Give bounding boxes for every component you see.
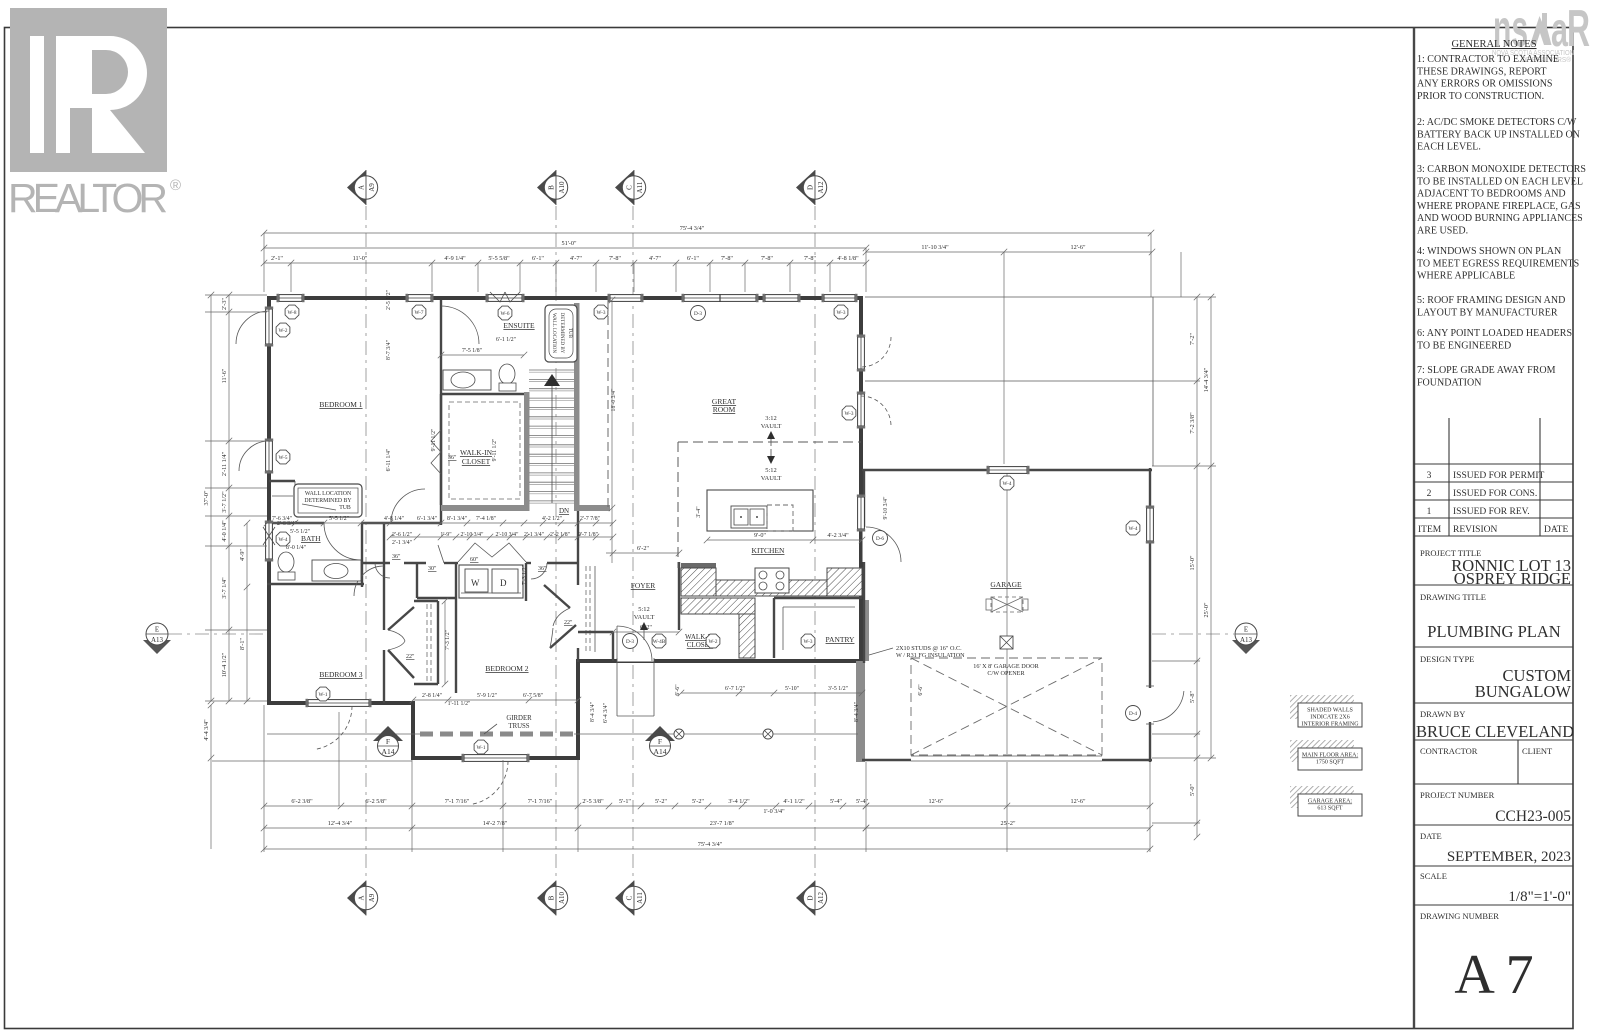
svg-text:5:12: 5:12 xyxy=(765,467,777,474)
exterior wall top - main house xyxy=(267,296,863,300)
svg-text:GARAGE: GARAGE xyxy=(990,580,1022,589)
window tag W-6 xyxy=(498,306,512,320)
garage man door D-4 xyxy=(1148,688,1153,722)
walk-in closet shelving dashed xyxy=(449,402,520,499)
garage door X brace dashed xyxy=(911,658,1102,755)
svg-text:1: CONTRACTOR TO EXAMINE: 1: CONTRACTOR TO EXAMINE xyxy=(1417,54,1559,65)
left lower dimension line xyxy=(246,523,248,701)
kitchen counter hatched left block xyxy=(681,568,716,596)
garage wall bottom right segment xyxy=(1102,759,1152,761)
bottom dim segments row xyxy=(264,805,866,807)
svg-text:7'-4 1/8": 7'-4 1/8" xyxy=(476,516,496,522)
svg-text:D-3: D-3 xyxy=(694,311,702,317)
svg-text:D: D xyxy=(807,185,815,190)
walk-in closet bottom wall shaded xyxy=(441,505,529,511)
bath vanity xyxy=(312,560,361,581)
window tag W-3 a xyxy=(594,305,608,319)
svg-text:10'-4 1/2": 10'-4 1/2" xyxy=(221,652,228,677)
svg-text:9'-11 1/2": 9'-11 1/2" xyxy=(431,429,437,452)
window left wall lower xyxy=(266,441,273,471)
svg-text:A13: A13 xyxy=(1240,636,1253,644)
svg-text:12'-6": 12'-6" xyxy=(929,798,944,805)
svg-text:6'-2": 6'-2" xyxy=(640,624,652,631)
bedroom3 closet rod dashed xyxy=(426,604,428,681)
svg-text:6'-1 3/4": 6'-1 3/4" xyxy=(417,516,437,522)
ensuite bottom wall xyxy=(441,393,527,395)
svg-text:D-4: D-4 xyxy=(1129,711,1137,717)
bedroom1 right wall xyxy=(440,300,442,344)
svg-text:WALL LOCATION: WALL LOCATION xyxy=(305,491,352,497)
svg-text:ADJACENT TO BEDROOMS AND: ADJACENT TO BEDROOMS AND xyxy=(1417,189,1566,200)
svg-text:WHERE PROPANE FIREPLACE, GAS: WHERE PROPANE FIREPLACE, GAS xyxy=(1417,201,1581,212)
svg-text:51'-0": 51'-0" xyxy=(562,240,577,247)
svg-text:W-3: W-3 xyxy=(804,639,813,645)
svg-text:2: AC/DC SMOKE DETECTORS C/W: 2: AC/DC SMOKE DETECTORS C/W xyxy=(1417,117,1577,128)
garage side door arc upper xyxy=(1149,497,1151,552)
hall wall xyxy=(362,562,390,564)
svg-text:9'-0": 9'-0" xyxy=(754,532,766,539)
svg-text:TO BE INSTALLED ON EACH LEVEL: TO BE INSTALLED ON EACH LEVEL xyxy=(1417,176,1583,187)
svg-text:4'-1 1/2": 4'-1 1/2" xyxy=(783,798,805,805)
svg-text:6'-7 5/8": 6'-7 5/8" xyxy=(523,693,543,699)
svg-text:4'-7": 4'-7" xyxy=(649,255,661,262)
svg-text:BATTERY BACK UP INSTALLED ON: BATTERY BACK UP INSTALLED ON xyxy=(1417,129,1580,140)
svg-text:CCH23-005: CCH23-005 xyxy=(1495,808,1571,825)
svg-text:5'-5 1/2": 5'-5 1/2" xyxy=(290,529,310,535)
nsar association watermark logo xyxy=(1492,0,1590,64)
svg-text:7: SLOPE GRADE AWAY FROM: 7: SLOPE GRADE AWAY FROM xyxy=(1417,365,1556,376)
bedroom2 left wall xyxy=(455,601,457,693)
svg-text:25'-0": 25'-0" xyxy=(1203,602,1210,617)
svg-text:36": 36" xyxy=(392,554,401,560)
svg-text:BUNGALOW: BUNGALOW xyxy=(1475,682,1572,701)
exterior wall bedroom2 bay right xyxy=(576,659,580,760)
svg-text:LAYOUT BY MANUFACTURER: LAYOUT BY MANUFACTURER xyxy=(1417,307,1558,318)
vault break dashed line xyxy=(678,441,861,443)
svg-text:DATE: DATE xyxy=(1420,831,1442,841)
svg-text:SCALE: SCALE xyxy=(1420,871,1447,881)
section marker C bottom xyxy=(615,881,634,916)
svg-text:5'-5 1/2": 5'-5 1/2" xyxy=(329,516,349,522)
svg-text:A11: A11 xyxy=(636,181,644,193)
svg-text:ISSUED FOR PERMIT: ISSUED FOR PERMIT xyxy=(1453,471,1545,481)
garage wall left upper xyxy=(863,470,865,663)
right extension lines xyxy=(1153,296,1216,298)
hall door arc 36 xyxy=(375,563,390,578)
section line D xyxy=(814,206,816,880)
svg-text:22": 22" xyxy=(564,620,573,626)
svg-text:4'-9 1/4": 4'-9 1/4" xyxy=(444,255,466,262)
garage door opener symbol xyxy=(991,597,1023,612)
svg-text:C: C xyxy=(626,185,634,190)
bedroom2 left inner dim xyxy=(444,601,446,684)
svg-text:VAULT: VAULT xyxy=(761,423,782,430)
svg-text:2'-1": 2'-1" xyxy=(271,255,283,262)
svg-text:D: D xyxy=(500,578,507,588)
svg-text:6'-6": 6'-6" xyxy=(918,684,924,695)
svg-text:25'-2": 25'-2" xyxy=(1001,820,1016,827)
svg-text:5:12: 5:12 xyxy=(638,606,650,613)
svg-text:6'-2": 6'-2" xyxy=(637,545,649,552)
svg-text:4'-4 3/4": 4'-4 3/4" xyxy=(203,719,210,741)
svg-text:WHERE APPLICABLE: WHERE APPLICABLE xyxy=(1417,271,1515,282)
left bottom vertical dim xyxy=(210,705,212,849)
bath door arc xyxy=(324,523,361,560)
svg-text:DETERMINED BY: DETERMINED BY xyxy=(304,498,352,504)
svg-text:W-4: W-4 xyxy=(279,537,288,543)
svg-text:B: B xyxy=(548,895,556,900)
hall closet door leaf xyxy=(438,545,444,563)
svg-text:7'-3 1/2": 7'-3 1/2" xyxy=(445,630,451,650)
svg-text:REALTOR: REALTOR xyxy=(8,175,168,221)
svg-text:TO BE ENGINEERED: TO BE ENGINEERED xyxy=(1417,340,1511,351)
svg-text:4'-8 1/8": 4'-8 1/8" xyxy=(837,255,859,262)
svg-text:DRAWING NUMBER: DRAWING NUMBER xyxy=(1420,911,1499,921)
REALTOR watermark logo xyxy=(8,8,181,221)
tub at stair top xyxy=(545,305,577,362)
svg-text:ARE USED.: ARE USED. xyxy=(1417,226,1468,237)
deck door arcs dashed xyxy=(861,337,891,367)
bedroom3 right wall xyxy=(383,523,385,630)
svg-text:1: 1 xyxy=(1427,507,1432,517)
svg-text:W-4: W-4 xyxy=(1003,481,1012,487)
right dimension line inner xyxy=(1196,297,1198,837)
foyer closet hatched walls xyxy=(681,598,755,614)
svg-text:6'-1 1/2": 6'-1 1/2" xyxy=(496,337,516,343)
svg-text:W-5: W-5 xyxy=(279,455,288,461)
svg-text:15'-0": 15'-0" xyxy=(1189,555,1196,570)
window W-3 top wall right xyxy=(824,295,855,302)
kitchen counter hatched band xyxy=(716,580,862,596)
svg-text:TUB: TUB xyxy=(339,505,351,511)
svg-text:C/W OPENER: C/W OPENER xyxy=(987,670,1025,677)
svg-text:1/8"=1'-0": 1/8"=1'-0" xyxy=(1508,889,1571,905)
svg-text:GENERAL NOTES: GENERAL NOTES xyxy=(1451,39,1536,50)
svg-text:4'-8 1/4": 4'-8 1/4" xyxy=(384,516,404,522)
kitchen stove xyxy=(755,568,789,593)
garage bottom dim row 2 xyxy=(866,827,1150,829)
ensuite door arc xyxy=(441,306,479,344)
exterior wall step bedroom2 left xyxy=(411,703,415,760)
svg-text:6'-11 1/4": 6'-11 1/4" xyxy=(386,449,392,472)
svg-text:A14: A14 xyxy=(382,747,395,756)
svg-text:A10: A10 xyxy=(558,891,566,904)
svg-text:2'-1 3/4": 2'-1 3/4" xyxy=(392,540,412,546)
svg-text:613 SQFT: 613 SQFT xyxy=(1317,806,1343,812)
svg-text:8'-1 3/4": 8'-1 3/4" xyxy=(447,516,467,522)
stair treads xyxy=(529,369,574,371)
island dishwasher dashed xyxy=(767,505,793,531)
svg-text:6: ANY POINT LOADED HEADERS: 6: ANY POINT LOADED HEADERS xyxy=(1417,328,1572,339)
svg-text:8'-4 3/4": 8'-4 3/4" xyxy=(854,702,860,722)
laundry bifold doors xyxy=(458,543,526,562)
svg-text:1'-0 3/4": 1'-0 3/4" xyxy=(763,808,785,815)
stair wall right shaded xyxy=(574,303,580,508)
svg-text:E: E xyxy=(155,626,159,634)
svg-text:F: F xyxy=(386,737,390,746)
door tag D-3 xyxy=(691,306,706,321)
section marker D top xyxy=(796,170,815,205)
window tag W-3 pantry xyxy=(801,634,815,648)
window W-3 top wall mid xyxy=(765,295,798,302)
svg-text:D: D xyxy=(807,895,815,900)
svg-text:D-6: D-6 xyxy=(876,536,884,542)
section marker E right xyxy=(1232,640,1260,654)
bedroom2 egress arc dashed xyxy=(472,761,508,804)
great room right wall windows xyxy=(858,337,865,369)
svg-text:11'-6": 11'-6" xyxy=(221,368,228,383)
svg-text:GIRDER: GIRDER xyxy=(506,715,532,722)
ensuite toilet xyxy=(499,364,515,384)
stair wall left shaded xyxy=(524,392,530,511)
svg-text:C: C xyxy=(626,895,634,900)
svg-text:7'-2 3/8": 7'-2 3/8" xyxy=(1189,412,1196,434)
svg-text:5: ROOF FRAMING DESIGN AND: 5: ROOF FRAMING DESIGN AND xyxy=(1417,295,1565,306)
svg-text:W-4: W-4 xyxy=(1129,526,1138,532)
legend garage area xyxy=(1290,786,1362,816)
svg-text:W-8: W-8 xyxy=(288,310,297,316)
legend main floor area xyxy=(1290,740,1362,770)
svg-text:5'-4": 5'-4" xyxy=(830,798,842,805)
svg-text:5'-10": 5'-10" xyxy=(785,686,799,692)
svg-text:1750 SQFT: 1750 SQFT xyxy=(1316,760,1345,766)
svg-text:75'-4 3/4": 75'-4 3/4" xyxy=(680,225,705,232)
svg-text:FOYER: FOYER xyxy=(631,581,656,590)
left extension lines xyxy=(205,294,267,296)
left dimension line 37ft xyxy=(210,295,212,701)
svg-text:6'-7 1/2": 6'-7 1/2" xyxy=(725,686,745,692)
svg-text:ENSUITE: ENSUITE xyxy=(503,321,535,330)
svg-text:3'-7 1/4": 3'-7 1/4" xyxy=(221,577,228,599)
garage door opening xyxy=(911,755,1102,757)
section marker C top xyxy=(615,170,634,205)
svg-text:A12: A12 xyxy=(817,891,825,904)
exterior wall left xyxy=(267,296,271,705)
svg-text:VAULT: VAULT xyxy=(761,475,782,482)
svg-text:D-3: D-3 xyxy=(626,639,634,645)
svg-text:7'-6 3/4": 7'-6 3/4" xyxy=(272,516,292,522)
svg-text:9'-11 1/2": 9'-11 1/2" xyxy=(492,439,498,462)
svg-text:BEDROOM 1: BEDROOM 1 xyxy=(319,400,362,409)
ensuite vanity xyxy=(443,370,491,390)
svg-text:PRIOR TO CONSTRUCTION.: PRIOR TO CONSTRUCTION. xyxy=(1417,91,1544,102)
window tag W-2 xyxy=(276,323,290,337)
laundry closet walls xyxy=(416,563,418,598)
svg-text:ANY ERRORS OR OMISSIONS: ANY ERRORS OR OMISSIONS xyxy=(1417,79,1553,90)
svg-text:5'-2": 5'-2" xyxy=(655,798,667,805)
foyer left wall xyxy=(612,632,614,661)
svg-text:5'-1": 5'-1" xyxy=(619,798,631,805)
svg-text:OSPREY RIDGE: OSPREY RIDGE xyxy=(1454,569,1571,588)
bedroom1 door arc xyxy=(391,489,425,523)
bottom extension lines xyxy=(263,705,265,852)
svg-text:11'-10 3/4": 11'-10 3/4" xyxy=(921,244,949,251)
svg-text:W-2: W-2 xyxy=(709,639,718,645)
garage ceiling box symbol xyxy=(1000,636,1013,649)
svg-text:5'-2": 5'-2" xyxy=(692,798,704,805)
girder truss heavy dashed line xyxy=(420,732,574,737)
svg-text:8'-1": 8'-1" xyxy=(239,638,246,650)
svg-text:TRUSS: TRUSS xyxy=(508,723,529,730)
section line C xyxy=(632,206,634,880)
svg-text:2'-8 1/4": 2'-8 1/4" xyxy=(422,693,442,699)
svg-text:7'-8": 7'-8" xyxy=(761,255,773,262)
svg-text:7'-2": 7'-2" xyxy=(1189,333,1196,345)
svg-text:5'-5 5/8": 5'-5 5/8" xyxy=(488,255,510,262)
svg-text:WALL LOCATION: WALL LOCATION xyxy=(551,313,556,353)
svg-text:WALK-IN: WALK-IN xyxy=(460,448,493,457)
bedroom3 door arc xyxy=(354,566,384,596)
garage window right W-4 xyxy=(1147,508,1154,541)
svg-text:REVISION: REVISION xyxy=(1453,525,1497,535)
garage bottom dim row xyxy=(866,805,1150,807)
exterior wall great room right xyxy=(859,296,863,663)
svg-text:2'-5 3/8": 2'-5 3/8" xyxy=(582,798,604,805)
bath toilet xyxy=(278,552,294,572)
svg-text:4: WINDOWS SHOWN ON PLAN: 4: WINDOWS SHOWN ON PLAN xyxy=(1417,246,1561,257)
svg-text:7'-8": 7'-8" xyxy=(721,255,733,262)
svg-text:6'-2 5/8": 6'-2 5/8" xyxy=(365,798,387,805)
svg-text:A: A xyxy=(358,185,366,190)
svg-text:DRAWN BY: DRAWN BY xyxy=(1420,709,1465,719)
deck outline top right xyxy=(865,297,1153,466)
window W-8 top wall xyxy=(279,295,302,302)
bedroom2 bay window bottom wall xyxy=(464,755,527,762)
svg-text:INDICATE 2X6: INDICATE 2X6 xyxy=(1310,715,1350,721)
title block frame xyxy=(1413,28,1415,1029)
svg-text:BEDROOM 3: BEDROOM 3 xyxy=(319,670,362,679)
section marker B top xyxy=(537,170,556,205)
svg-text:A14: A14 xyxy=(654,747,667,756)
svg-text:7'-3 1/2": 7'-3 1/2" xyxy=(522,565,528,585)
legend shaded walls xyxy=(1290,695,1362,728)
svg-text:2'-11 1/4": 2'-11 1/4" xyxy=(221,451,228,476)
svg-text:4'-0 1/4": 4'-0 1/4" xyxy=(221,520,228,542)
svg-text:12'-4 3/4": 12'-4 3/4" xyxy=(328,820,353,827)
bedroom3 closet walls xyxy=(414,600,438,602)
section marker B bottom xyxy=(537,881,556,916)
section marker A top xyxy=(347,170,366,205)
svg-text:14'-4 3/4": 14'-4 3/4" xyxy=(1203,367,1210,392)
window tag W-8 xyxy=(285,305,299,319)
svg-text:ISSUED FOR CONS.: ISSUED FOR CONS. xyxy=(1453,489,1537,499)
window tag W-4 bath xyxy=(276,532,290,546)
stair bottom wall shaded xyxy=(574,505,610,511)
door tag D-4 garage xyxy=(1126,706,1141,721)
svg-text:8'-7 3/4": 8'-7 3/4" xyxy=(386,340,392,360)
svg-text:ROOM: ROOM xyxy=(713,405,736,414)
svg-text:DESIGN TYPE: DESIGN TYPE xyxy=(1420,654,1474,664)
svg-text:W-3: W-3 xyxy=(597,310,606,316)
svg-text:37'-0": 37'-0" xyxy=(203,490,210,505)
deck mid line xyxy=(865,380,1153,382)
svg-text:7'-1 7/16": 7'-1 7/16" xyxy=(445,798,470,805)
svg-text:B: B xyxy=(548,185,556,190)
svg-text:TUB: TUB xyxy=(567,328,572,339)
bedroom2 right angled closet doors xyxy=(544,585,570,608)
svg-text:11'-0": 11'-0" xyxy=(353,255,368,262)
island sink xyxy=(731,506,767,528)
window tag W-4B foyer xyxy=(652,634,666,648)
svg-text:W-6: W-6 xyxy=(501,311,510,317)
bath window W-4 left wall xyxy=(266,523,273,559)
svg-text:2'-5 1/2": 2'-5 1/2" xyxy=(386,290,392,310)
svg-text:W-1: W-1 xyxy=(477,745,486,751)
girder post symbols xyxy=(674,729,684,739)
top dimension line 75ft xyxy=(264,232,1151,234)
top extension lines xyxy=(290,263,292,292)
svg-text:6'-1": 6'-1" xyxy=(532,255,544,262)
bedroom1 bottom wall xyxy=(267,522,324,524)
bay level extension line left xyxy=(212,760,412,762)
svg-text:14'-2 7/8": 14'-2 7/8" xyxy=(483,820,508,827)
svg-text:E: E xyxy=(1244,626,1248,634)
top dimension line deck xyxy=(866,251,1152,253)
svg-text:60": 60" xyxy=(470,557,479,563)
svg-text:TO MEET EGRESS REQUIREMENTS: TO MEET EGRESS REQUIREMENTS xyxy=(1417,258,1579,269)
window W-7 top wall xyxy=(408,295,431,302)
svg-text:A10: A10 xyxy=(558,181,566,194)
svg-text:6'-1": 6'-1" xyxy=(687,255,699,262)
svg-text:5'-4": 5'-4" xyxy=(856,798,868,805)
window tag W-7 xyxy=(412,305,426,319)
svg-text:KITCHEN: KITCHEN xyxy=(752,546,785,555)
patio door D-3 top wall xyxy=(684,295,756,302)
svg-text:CLIENT: CLIENT xyxy=(1522,746,1553,756)
svg-text:30": 30" xyxy=(428,566,437,572)
svg-text:W-2: W-2 xyxy=(279,328,288,334)
bottom dim row 2 xyxy=(264,827,866,829)
svg-text:W: W xyxy=(471,578,480,588)
svg-text:PLUMBING PLAN: PLUMBING PLAN xyxy=(1427,622,1560,641)
foyer right wall xyxy=(678,562,680,630)
svg-text:ITEM: ITEM xyxy=(1418,525,1442,535)
lower vault note xyxy=(770,449,772,462)
svg-text:A 7: A 7 xyxy=(1454,944,1533,1006)
svg-text:VAULT: VAULT xyxy=(634,614,655,621)
svg-text:5'-9 1/2": 5'-9 1/2" xyxy=(477,693,497,699)
svg-text:22": 22" xyxy=(406,654,415,660)
svg-text:7'-5 1/8": 7'-5 1/8" xyxy=(462,348,482,354)
washer dryer boxes xyxy=(459,565,523,598)
svg-text:PANTRY: PANTRY xyxy=(826,635,855,644)
tub niche wall xyxy=(269,480,295,482)
hall door arc right 36 xyxy=(531,563,547,579)
svg-text:BEDROOM 2: BEDROOM 2 xyxy=(485,664,528,673)
svg-text:MAIN FLOOR AREA:: MAIN FLOOR AREA: xyxy=(1302,753,1359,759)
svg-text:8'-0 1/4": 8'-0 1/4" xyxy=(286,545,306,551)
svg-text:7'-8": 7'-8" xyxy=(609,255,621,262)
bottom dim row 75ft xyxy=(264,848,1150,850)
svg-text:BRUCE CLEVELAND: BRUCE CLEVELAND xyxy=(1416,722,1574,741)
window tag W-3 c xyxy=(842,406,856,420)
svg-text:3: 3 xyxy=(1427,471,1432,481)
garage wall top xyxy=(862,469,1152,471)
door tag D-6 garage entry xyxy=(873,531,888,546)
svg-text:CLOSET: CLOSET xyxy=(462,457,491,466)
svg-text:7'-1 7/16": 7'-1 7/16" xyxy=(528,798,553,805)
section marker F left xyxy=(373,726,403,741)
svg-text:6'-4 3/4": 6'-4 3/4" xyxy=(603,703,609,723)
island dim row xyxy=(707,539,862,541)
entry closet dashed shelf xyxy=(585,566,587,652)
exterior wall front foyer-kitchen xyxy=(578,659,863,663)
svg-text:5'-0": 5'-0" xyxy=(1189,784,1196,796)
bedroom3 egress arc dashed xyxy=(316,706,352,749)
section line E left xyxy=(168,633,267,635)
svg-text:A9: A9 xyxy=(368,183,376,192)
bedroom3 closet angled double doors xyxy=(388,607,414,630)
